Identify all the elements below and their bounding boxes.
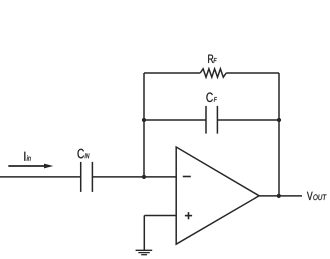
label CF xyxy=(206,92,217,102)
resistor RF xyxy=(200,69,226,77)
node junction inverting input xyxy=(142,175,146,179)
ground xyxy=(136,250,153,254)
capacitor CF xyxy=(206,106,217,134)
node junction CF-left xyxy=(142,118,146,122)
wire CF branch left xyxy=(144,119,206,121)
wire inverting input xyxy=(92,176,176,178)
wire top feedback right segment xyxy=(226,72,279,74)
wire ground stub xyxy=(143,216,145,251)
node junction output xyxy=(277,194,281,198)
arrow Iin current direction xyxy=(8,165,45,167)
wire input left xyxy=(0,176,81,178)
wire top feedback left segment xyxy=(144,72,200,74)
capacitor CIN xyxy=(81,162,93,192)
wire CF branch right xyxy=(217,119,279,121)
label RF xyxy=(208,55,217,63)
op-amp plus pin label xyxy=(185,212,192,219)
wire non-inverting input xyxy=(144,215,177,217)
arrow head xyxy=(44,164,53,169)
label VOUT xyxy=(307,192,327,200)
node junction CF-right xyxy=(277,118,281,122)
wire output xyxy=(259,195,303,197)
label Iin xyxy=(24,152,30,161)
op-amp minus pin label xyxy=(183,176,191,178)
wire right vertical feedback xyxy=(278,73,280,196)
label CIN xyxy=(78,149,90,159)
wire left vertical feedback xyxy=(143,73,145,177)
op-amp U1 xyxy=(176,147,259,244)
